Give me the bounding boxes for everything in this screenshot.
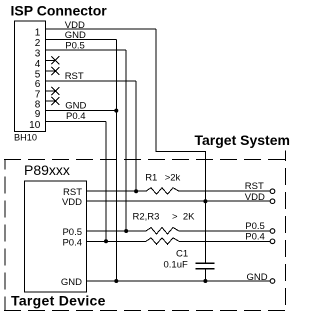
svg-text:Target System: Target System [195, 132, 290, 148]
svg-text:GND: GND [61, 277, 82, 288]
svg-text:> 2K: > 2K [172, 211, 195, 222]
svg-text:VDD: VDD [245, 192, 265, 203]
svg-text:P0.4: P0.4 [62, 237, 82, 248]
svg-text:P89xxx: P89xxx [24, 162, 70, 178]
svg-text:ISP Connector: ISP Connector [11, 3, 108, 19]
svg-text:6: 6 [35, 79, 41, 90]
svg-text:>2k: >2k [165, 172, 181, 183]
svg-text:P0.5: P0.5 [245, 221, 265, 232]
svg-text:4: 4 [35, 59, 41, 70]
svg-text:GND: GND [65, 30, 86, 41]
svg-text:10: 10 [29, 120, 41, 131]
svg-text:GND: GND [247, 272, 268, 283]
svg-text:VDD: VDD [62, 197, 82, 208]
svg-text:P0.5: P0.5 [65, 40, 85, 51]
svg-text:P0.4: P0.4 [66, 111, 86, 122]
svg-text:RST: RST [65, 71, 84, 82]
svg-text:R2,R3: R2,R3 [133, 211, 160, 222]
svg-text:P0.4: P0.4 [245, 231, 265, 242]
svg-text:Target Device: Target Device [11, 292, 106, 308]
svg-text:0.1uF: 0.1uF [164, 260, 188, 271]
svg-text:RST: RST [245, 181, 264, 192]
svg-text:C1: C1 [176, 249, 188, 260]
svg-text:1: 1 [35, 28, 41, 39]
svg-text:3: 3 [35, 48, 41, 59]
svg-text:GND: GND [65, 101, 86, 112]
svg-text:R1: R1 [145, 172, 157, 183]
svg-text:BH10: BH10 [14, 132, 37, 142]
svg-text:9: 9 [35, 109, 41, 120]
